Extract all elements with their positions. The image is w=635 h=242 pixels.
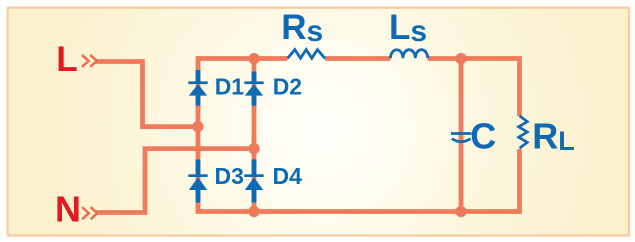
wire: capacitor branch column — [459, 59, 464, 212]
resistor RL — [519, 116, 528, 148]
wire: top rail Ls to output corner and right column upper segment — [428, 59, 520, 117]
node: bottom rail / D4 junction — [248, 206, 259, 217]
capacitor C — [451, 134, 472, 142]
node: top rail / D2 column junction — [248, 53, 259, 64]
node: bottom rail / capacitor junction — [455, 206, 466, 217]
svg-text:Ls: Ls — [389, 8, 427, 48]
wire: L terminal lead to bridge left node — [96, 62, 198, 127]
svg-text:D1: D1 — [215, 74, 245, 100]
svg-text:C: C — [470, 116, 496, 157]
wire: D2/D4 bridge column — [252, 59, 257, 212]
node: top rail / capacitor branch junction — [455, 53, 466, 64]
terminal L chevrons — [82, 55, 97, 67]
diode D3 — [188, 160, 207, 203]
svg-text:D2: D2 — [273, 74, 302, 100]
wire: top rail segment between Rs and Ls — [325, 56, 391, 61]
svg-text:N: N — [55, 189, 81, 230]
node: N input / bridge right junction — [248, 143, 259, 154]
wire: top rail bridge corner to Rs, left bridge column, bottom rail, load column lower — [198, 59, 520, 212]
svg-text:D4: D4 — [273, 163, 303, 189]
diode D1 — [188, 70, 207, 106]
terminal N chevrons — [82, 207, 97, 219]
diode D4 — [244, 160, 263, 203]
svg-text:Rs: Rs — [281, 8, 323, 48]
wire: N terminal lead to bridge right node — [97, 149, 255, 213]
svg-text:L: L — [56, 40, 77, 79]
diode D2 — [244, 72, 263, 106]
inductor Ls — [391, 50, 428, 59]
node: L input / bridge left junction — [192, 121, 203, 132]
svg-text:D3: D3 — [215, 163, 244, 189]
resistor Rs — [288, 50, 326, 59]
